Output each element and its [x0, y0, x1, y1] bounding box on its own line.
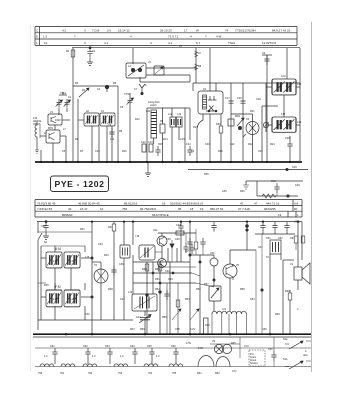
svg-text:C47: C47 [258, 246, 263, 249]
svg-text:2 0: 2 0 [107, 28, 112, 32]
svg-text:7.D.8: 7.D.8 [92, 28, 100, 32]
svg-text:R56: R56 [196, 288, 201, 291]
svg-text:L6: L6 [198, 52, 201, 55]
svg-text:R51: R51 [155, 278, 160, 281]
svg-text:43: 43 [68, 207, 72, 211]
svg-text:1.2: 1.2 [44, 355, 48, 358]
svg-text:L15: L15 [53, 260, 58, 263]
svg-text:C61: C61 [50, 345, 55, 348]
svg-text:INPUT: INPUT [33, 123, 41, 126]
svg-text:L21: L21 [222, 308, 227, 311]
svg-text:L13: L13 [297, 83, 302, 86]
svg-text:C64: C64 [130, 345, 135, 348]
svg-text:C49: C49 [292, 166, 297, 169]
svg-text:C44: C44 [136, 316, 141, 319]
svg-text:4.2: 4.2 [62, 28, 67, 32]
svg-text:R20: R20 [216, 123, 221, 126]
svg-text:7: 7 [74, 35, 76, 39]
svg-text:A: A [145, 84, 147, 87]
svg-text:4 W: 4 W [216, 35, 222, 39]
svg-text:4: 4 [190, 35, 192, 39]
svg-text:R31: R31 [80, 228, 85, 231]
svg-text:C38: C38 [166, 238, 171, 241]
svg-text:R5: R5 [113, 82, 117, 85]
svg-text:S2: S2 [44, 241, 48, 244]
svg-text:VT1b: VT1b [124, 93, 131, 96]
svg-text:C41: C41 [165, 270, 170, 273]
svg-text:R15: R15 [158, 143, 163, 146]
svg-text:84,9,17 43 23: 84,9,17 43 23 [272, 28, 291, 32]
svg-text:4: 4 [305, 350, 307, 353]
svg-text:C36: C36 [119, 263, 124, 266]
svg-text:C19: C19 [237, 97, 242, 100]
svg-text:V3: V3 [246, 118, 250, 121]
svg-text:16 47: 16 47 [80, 207, 88, 211]
svg-text:R57: R57 [204, 283, 209, 286]
svg-text:R7: R7 [80, 150, 84, 153]
svg-text:R55: R55 [162, 316, 167, 319]
svg-text:758: 758 [122, 207, 127, 211]
svg-text:R62: R62 [215, 372, 220, 375]
svg-text:V9: V9 [212, 340, 216, 343]
svg-text:C48: C48 [271, 180, 276, 183]
svg-text:L17: L17 [53, 298, 58, 301]
svg-text:MULTIPOLE: MULTIPOLE [152, 213, 169, 217]
svg-text:C4: C4 [97, 88, 101, 91]
svg-text:L11: L11 [168, 113, 173, 116]
svg-text:R33: R33 [104, 254, 109, 257]
svg-text:BihBAR: BihBAR [62, 213, 73, 217]
svg-text:C70: C70 [244, 345, 249, 348]
svg-text:C6: C6 [262, 52, 266, 55]
svg-text:3: 3 [84, 28, 86, 32]
svg-text:1 5: 1 5 [43, 35, 48, 39]
svg-text:R22: R22 [248, 143, 253, 146]
svg-text:4: 4 [150, 41, 152, 45]
svg-text:C24: C24 [186, 143, 191, 146]
svg-text:E: E [36, 35, 38, 39]
svg-text:C46: C46 [295, 184, 300, 187]
svg-text:R24: R24 [270, 143, 275, 146]
svg-text:R45: R45 [155, 268, 160, 271]
svg-text:C60: C60 [268, 348, 273, 351]
svg-text:C45: C45 [222, 190, 227, 193]
svg-text:96.752/26/9: 96.752/26/9 [140, 207, 156, 211]
svg-text:88.812/16: 88.812/16 [124, 201, 138, 205]
svg-text:C63: C63 [105, 345, 110, 348]
svg-text:18: 18 [162, 201, 166, 205]
svg-text:R50: R50 [140, 328, 145, 331]
svg-text:L17: L17 [185, 250, 190, 253]
svg-text:761: 761 [60, 372, 65, 375]
svg-text:tuning AGC: tuning AGC [148, 101, 160, 104]
svg-text:V1: V1 [50, 111, 54, 114]
svg-text:T2: T2 [266, 256, 270, 259]
svg-text:R35: R35 [44, 284, 49, 287]
svg-text:4.1: 4.1 [168, 41, 173, 45]
svg-text:95: 95 [178, 207, 182, 211]
svg-text:17: 17 [184, 28, 188, 32]
svg-text:26 19 23: 26 19 23 [160, 28, 172, 32]
svg-text:R38: R38 [108, 288, 113, 291]
svg-text:L8: L8 [86, 110, 89, 113]
svg-text:L2: L2 [44, 132, 47, 135]
svg-text:R26: R26 [240, 190, 245, 193]
svg-text:C54: C54 [250, 298, 255, 301]
svg-text:C33: C33 [176, 224, 181, 227]
svg-text:444.71 16: 444.71 16 [266, 201, 280, 205]
svg-text:PYE - 1202: PYE - 1202 [55, 179, 105, 189]
svg-text:7.6/8.92 83: 7.6/8.92 83 [37, 207, 52, 211]
svg-text:C59: C59 [262, 328, 267, 331]
svg-text:C71: C71 [232, 370, 237, 373]
svg-text:18: 18 [190, 207, 194, 211]
svg-text:1000: 1000 [55, 119, 61, 122]
svg-text:L7: L7 [63, 128, 66, 131]
svg-text:4: 4 [130, 35, 132, 39]
svg-text:C7: C7 [134, 88, 138, 91]
svg-text:L10: L10 [146, 110, 151, 113]
svg-text:3: 3 [84, 41, 86, 45]
svg-text:6.8V: 6.8V [198, 347, 203, 350]
svg-text:R60: R60 [285, 290, 290, 293]
svg-text:1.2: 1.2 [156, 355, 160, 358]
svg-text:C2: C2 [92, 50, 96, 53]
svg-text:7.M: 7.M [135, 235, 139, 238]
svg-text:C52: C52 [278, 237, 283, 240]
svg-text:C30: C30 [41, 225, 46, 228]
svg-text:12.82T/2/1: 12.82T/2/1 [262, 41, 277, 45]
svg-text:4.1: 4.1 [104, 41, 109, 45]
svg-text:C28: C28 [285, 137, 290, 140]
svg-text:R8: R8 [198, 65, 202, 68]
svg-text:L15: L15 [85, 256, 90, 259]
svg-text:R14: R14 [163, 138, 168, 141]
svg-text:switch: switch [150, 104, 157, 107]
svg-text:1.2: 1.2 [92, 355, 96, 358]
svg-text:R52: R52 [155, 288, 160, 291]
svg-text:L5: L5 [148, 61, 151, 64]
svg-text:7: 7 [205, 35, 207, 39]
svg-text:R54: R54 [185, 298, 190, 301]
svg-text:L16: L16 [70, 260, 75, 263]
svg-text:L: L [36, 41, 38, 45]
svg-text:L4: L4 [128, 65, 131, 68]
svg-text:A.M: A.M [55, 247, 61, 251]
svg-text:R19: R19 [218, 150, 223, 153]
svg-text:R13: R13 [205, 324, 210, 327]
svg-text:19: 19 [200, 207, 204, 211]
svg-text:S1a: S1a [283, 338, 288, 341]
svg-text:V2: V2 [203, 88, 207, 91]
svg-text:L9: L9 [101, 110, 104, 113]
svg-text:R59: R59 [275, 313, 280, 316]
svg-text:R47: R47 [130, 328, 135, 331]
svg-text:ohm: ohm [303, 354, 308, 357]
svg-text:47: 47 [254, 201, 258, 205]
svg-text:F.M: F.M [55, 285, 60, 289]
svg-text:X2: X2 [94, 264, 98, 267]
svg-text:C25: C25 [258, 150, 263, 153]
svg-text:C42: C42 [85, 313, 90, 316]
svg-text:L19: L19 [128, 291, 133, 294]
svg-text:16: 16 [100, 207, 104, 211]
svg-text:C10: C10 [95, 150, 100, 153]
svg-text:C20: C20 [205, 143, 210, 146]
svg-text:C5: C5 [62, 150, 66, 153]
svg-text:60: 60 [294, 207, 298, 211]
svg-text:763: 763 [118, 372, 123, 375]
svg-text:R61: R61 [197, 372, 202, 375]
svg-text:C18: C18 [256, 98, 261, 101]
svg-text:T736/217/529H: T736/217/529H [235, 28, 256, 32]
svg-text:Socket: Socket [250, 362, 258, 365]
svg-text:V4a: V4a [153, 229, 158, 232]
svg-text:12: 12 [44, 41, 48, 45]
svg-text:910/8,82 44.80/8 80.81/7: 910/8,82 44.80/8 80.81/7 [170, 201, 204, 205]
svg-text:VT1a: VT1a [60, 92, 67, 95]
svg-text:760: 760 [38, 372, 43, 375]
svg-text:MHz: MHz [48, 127, 54, 130]
svg-text:C1: C1 [68, 96, 72, 99]
svg-text:19: 19 [278, 213, 282, 217]
svg-text:R16: R16 [193, 126, 198, 129]
svg-text:C11: C11 [110, 138, 115, 141]
svg-text:R21: R21 [250, 110, 255, 113]
svg-text:S1b: S1b [283, 358, 288, 361]
svg-text:R65: R65 [231, 342, 236, 345]
svg-text:C39: C39 [175, 238, 180, 241]
svg-text:C34: C34 [98, 243, 103, 246]
svg-text:R6: R6 [119, 130, 123, 133]
svg-text:C53: C53 [290, 237, 295, 240]
svg-text:F.M: F.M [281, 113, 285, 116]
svg-text:73 9 71: 73 9 71 [168, 35, 178, 39]
svg-text:956.37 52: 956.37 52 [210, 207, 224, 211]
svg-text:A.M: A.M [281, 75, 285, 78]
svg-text:R4: R4 [66, 50, 70, 53]
svg-text:LS: LS [290, 263, 293, 266]
svg-text:15,14 12: 15,14 12 [118, 28, 130, 32]
svg-text:C51: C51 [266, 237, 271, 240]
svg-text:765: 765 [172, 372, 177, 375]
svg-text:47: 47 [240, 201, 244, 205]
svg-text:R10: R10 [122, 150, 127, 153]
svg-text:L14: L14 [297, 121, 302, 124]
svg-text:C9: C9 [108, 124, 112, 127]
svg-text:C58: C58 [175, 328, 180, 331]
svg-text:764: 764 [148, 372, 153, 375]
svg-text:C15: C15 [180, 138, 185, 141]
svg-text:C62: C62 [83, 345, 88, 348]
svg-text:3.2V: 3.2V [190, 328, 195, 331]
svg-text:762: 762 [88, 372, 93, 375]
svg-text:V5: V5 [236, 264, 240, 267]
svg-text:C13: C13 [148, 141, 153, 144]
svg-text:C66: C66 [171, 345, 176, 348]
svg-text:R41: R41 [108, 226, 113, 229]
svg-text:R58: R58 [240, 288, 245, 291]
svg-text:C56: C56 [168, 278, 173, 281]
svg-text:C17: C17 [225, 97, 230, 100]
svg-text:C43: C43 [120, 298, 125, 301]
svg-text:C: C [36, 28, 39, 32]
svg-text:6.7: 6.7 [196, 41, 201, 45]
svg-text:4.5V: 4.5V [186, 342, 191, 345]
svg-text:C65: C65 [147, 345, 152, 348]
svg-text:9.8: 9.8 [294, 201, 299, 205]
svg-text:C22: C22 [230, 143, 235, 146]
svg-text:R25: R25 [204, 173, 209, 176]
svg-text:74: 74 [225, 28, 229, 32]
svg-text:MR1: MR1 [235, 115, 241, 118]
svg-text:L12: L12 [177, 113, 182, 116]
svg-text:37 7.618: 37 7.618 [238, 207, 250, 211]
svg-text:C3: C3 [191, 150, 195, 153]
svg-text:96/64/95: 96/64/95 [264, 207, 276, 211]
svg-text:C8: C8 [120, 106, 124, 109]
svg-text:46.805 50.84 45: 46.805 50.84 45 [78, 201, 100, 205]
svg-text:W: W [196, 28, 199, 32]
svg-text:R44: R44 [142, 268, 147, 271]
svg-text:79.82/3 85 49: 79.82/3 85 49 [37, 201, 56, 205]
svg-text:TN21: TN21 [228, 41, 236, 45]
svg-text:C12: C12 [141, 141, 146, 144]
svg-text:R3: R3 [75, 82, 79, 85]
svg-text:L18: L18 [70, 298, 75, 301]
svg-text:3: 3 [297, 308, 299, 311]
svg-text:L: L [297, 213, 299, 217]
svg-text:R12: R12 [135, 118, 140, 121]
svg-text:V4b: V4b [210, 252, 215, 255]
svg-text:R9: R9 [160, 120, 164, 123]
svg-text:1.2: 1.2 [120, 355, 124, 358]
